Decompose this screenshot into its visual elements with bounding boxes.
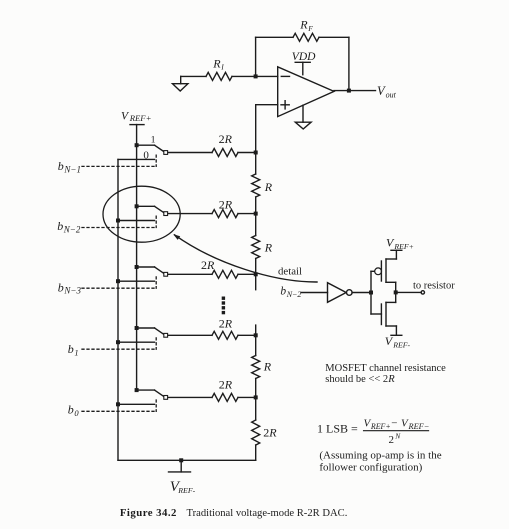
svg-text:out: out bbox=[386, 90, 397, 99]
svg-text:b: b bbox=[68, 342, 74, 356]
svg-text:1: 1 bbox=[151, 134, 156, 145]
svg-text:F: F bbox=[307, 24, 313, 33]
svg-text:V: V bbox=[121, 110, 130, 122]
svg-text:N−2: N−2 bbox=[286, 290, 302, 299]
svg-text:2R: 2R bbox=[219, 198, 233, 212]
svg-text:1: 1 bbox=[74, 347, 78, 357]
svg-text:MOSFET channel resistance: MOSFET channel resistance bbox=[325, 363, 446, 374]
svg-text:follower configuration): follower configuration) bbox=[319, 461, 422, 473]
svg-text:REF-: REF- bbox=[177, 486, 195, 495]
svg-text:2R: 2R bbox=[263, 426, 277, 440]
svg-text:VDD: VDD bbox=[292, 51, 316, 63]
svg-text:R: R bbox=[212, 56, 221, 70]
svg-text:(Assuming op-amp is in the: (Assuming op-amp is in the bbox=[319, 449, 441, 461]
svg-text:detail: detail bbox=[278, 265, 302, 277]
svg-text:REF-: REF- bbox=[392, 340, 410, 349]
svg-text:R: R bbox=[263, 359, 272, 373]
svg-text:0: 0 bbox=[74, 408, 79, 418]
svg-text:b: b bbox=[280, 286, 286, 298]
svg-text:1 LSB =: 1 LSB = bbox=[317, 422, 358, 436]
svg-text:2R: 2R bbox=[219, 317, 233, 331]
svg-text:REF+: REF+ bbox=[370, 422, 391, 431]
svg-text:2: 2 bbox=[389, 434, 395, 446]
svg-text:b: b bbox=[58, 159, 64, 173]
svg-text:N−2: N−2 bbox=[63, 224, 81, 234]
svg-text:−: − bbox=[391, 418, 397, 430]
svg-text:b: b bbox=[58, 280, 64, 294]
svg-text:2R: 2R bbox=[219, 132, 233, 146]
svg-text:b: b bbox=[68, 403, 74, 417]
svg-text:N: N bbox=[394, 432, 401, 441]
svg-text:N−3: N−3 bbox=[63, 286, 81, 296]
svg-text:R: R bbox=[299, 18, 308, 32]
svg-text:R: R bbox=[264, 180, 273, 194]
svg-text:to resistor: to resistor bbox=[413, 281, 455, 292]
svg-text:Traditional voltage-mode R-2R: Traditional voltage-mode R-2R DAC. bbox=[187, 508, 348, 519]
svg-text:REF+: REF+ bbox=[129, 113, 152, 123]
svg-text:should be << 2R: should be << 2R bbox=[325, 374, 395, 385]
svg-text:b: b bbox=[57, 219, 63, 233]
svg-text:R: R bbox=[264, 241, 273, 255]
svg-text:REF+: REF+ bbox=[393, 242, 414, 251]
svg-text:I: I bbox=[220, 63, 224, 72]
svg-text:Figure 34.2: Figure 34.2 bbox=[120, 507, 177, 519]
svg-text:0: 0 bbox=[143, 149, 149, 161]
svg-text:2R: 2R bbox=[201, 258, 215, 272]
svg-text:2R: 2R bbox=[219, 378, 233, 392]
svg-text:REF−: REF− bbox=[408, 422, 430, 431]
svg-text:N−1: N−1 bbox=[63, 164, 81, 174]
